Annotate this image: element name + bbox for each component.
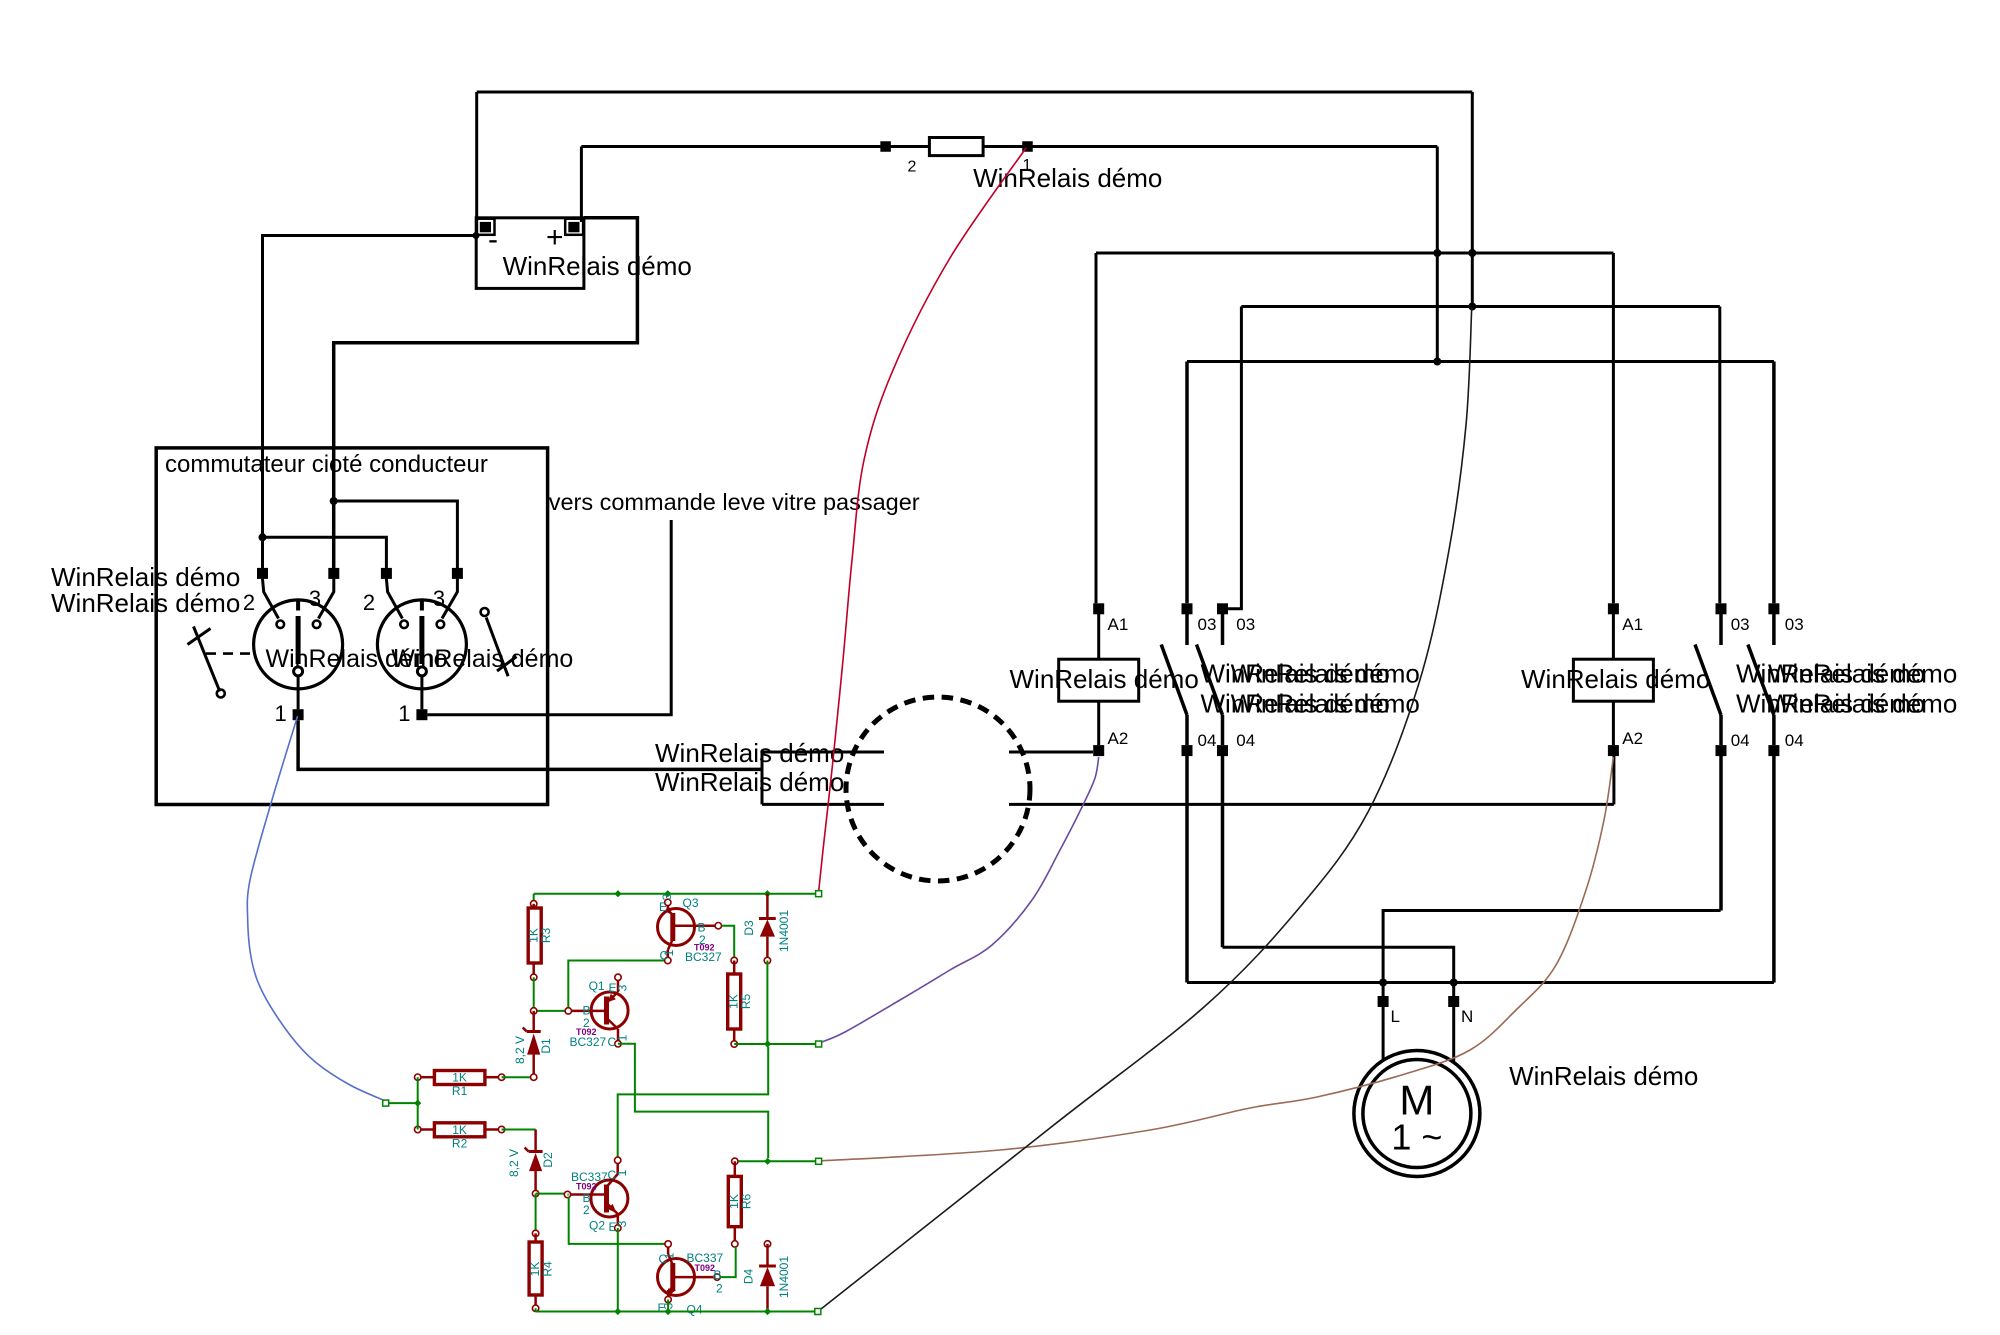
label SW1 pin 2 <box>243 590 255 615</box>
switch SW2 terminal pin3 <box>452 568 463 579</box>
wire SW2 pin1 to passenger command <box>428 520 672 715</box>
label SW2 pin 3 <box>433 586 445 611</box>
label K1 A1 <box>1108 615 1129 634</box>
label K2-1 04 <box>1731 731 1750 750</box>
label Q2 E <box>609 1220 617 1234</box>
connector emitter rail to black link <box>815 1309 821 1315</box>
wire from battery minus to switch box <box>263 232 480 573</box>
label Q1 pin2 <box>583 1016 590 1030</box>
svg-text:03: 03 <box>1236 615 1255 634</box>
wire net B horizontal to NC contacts <box>1241 305 1719 308</box>
wire plus branch to switch2 pin3 <box>334 501 458 573</box>
label Q2 pin1 <box>615 1169 629 1176</box>
svg-text:WinRelais démo: WinRelais démo <box>655 767 844 797</box>
svg-text:1N4001: 1N4001 <box>777 910 791 952</box>
wire green Q2 base down to Q4 collector <box>568 1195 665 1244</box>
connector supply to red link <box>816 891 822 897</box>
label Q3 pin2 <box>699 933 706 947</box>
wire green R1 to D1 <box>502 1076 534 1078</box>
svg-text:R3: R3 <box>539 928 553 944</box>
wire vertical to net A <box>1436 147 1439 362</box>
wire bus N middle <box>1223 947 1454 996</box>
label Q1 pin3 <box>616 984 630 991</box>
contact K2-1 terminal 04 <box>1716 745 1727 756</box>
wire green Q3 collector to Q1 base <box>568 961 664 1009</box>
wire motor lower line left segment <box>762 803 884 806</box>
wire link purple node1 to K1 A2 <box>819 757 1099 1043</box>
fuse F1 <box>880 138 1032 156</box>
wire net B drop to contact 03 right-pair-left <box>1718 307 1721 604</box>
label switches WinRelais demo line2 <box>51 588 240 618</box>
wire motor lower line right segment <box>1009 803 1614 806</box>
svg-text:D2: D2 <box>541 1152 555 1168</box>
label Q2 T092 <box>576 1182 597 1192</box>
svg-text:04: 04 <box>1785 731 1804 750</box>
wire green Q1 collector cross <box>618 1044 768 1158</box>
label R3 value 1K <box>527 928 541 943</box>
label K1-2 04 <box>1236 731 1255 750</box>
contact K1-2 terminal 03 <box>1217 603 1228 614</box>
label Q4 pin1 <box>663 1252 677 1259</box>
label Q3 pin1 <box>662 949 676 956</box>
switch SW2 terminal pin2 <box>381 568 392 579</box>
svg-text:Q3: Q3 <box>683 896 699 910</box>
wire net A horizontal to relay coils A1 <box>1096 252 1613 255</box>
resistor R2 <box>415 1123 505 1137</box>
label K1 A2 <box>1108 729 1129 748</box>
svg-text:A1: A1 <box>1108 615 1129 634</box>
svg-text:2: 2 <box>716 1282 723 1296</box>
label Q1 ref <box>589 979 605 993</box>
label Q1 E <box>609 981 617 995</box>
label D4 ref <box>742 1269 756 1285</box>
svg-text:WinRelais démo: WinRelais démo <box>1231 689 1420 719</box>
label D1 ref <box>539 1038 553 1054</box>
label motor WinRelais demo <box>1509 1061 1698 1091</box>
relay coil K2 terminal A2 <box>1608 745 1619 756</box>
svg-text:D4: D4 <box>742 1269 756 1285</box>
wire motor upper line left segment <box>762 751 884 754</box>
node net A junction lower <box>1433 358 1441 366</box>
svg-text:WinRelais démo: WinRelais démo <box>973 163 1162 193</box>
wire green R3 to Q1 base node <box>534 977 565 1011</box>
label SW2 pin 2 <box>363 590 375 615</box>
label Q1 T092 <box>576 1027 597 1037</box>
label R2 value 1K <box>452 1123 467 1137</box>
label fuse pin 2 <box>908 159 917 176</box>
label motor M <box>1399 1077 1434 1124</box>
motor M1 <box>1354 1051 1480 1177</box>
wire fuse line from battery-plus <box>581 145 1437 148</box>
wire link black emitter rail to net B <box>819 308 1472 1311</box>
svg-text:L: L <box>1391 1007 1400 1026</box>
wire green node1 R5 to connector <box>734 1043 818 1045</box>
svg-text:1 ~: 1 ~ <box>1391 1117 1442 1158</box>
label Q3 B <box>698 921 706 935</box>
relay coil K1 terminal A2 <box>1093 745 1104 756</box>
node H-bridge output 2 <box>764 1158 771 1165</box>
switch SW2 terminal pin1 <box>416 709 427 720</box>
dashed link lever to SW1 <box>206 652 253 655</box>
relay coil K2 terminal A1 <box>1608 603 1619 614</box>
relay coil K1 terminal A1 <box>1093 603 1104 614</box>
label D2 value 8,2 V <box>507 1149 521 1177</box>
svg-text:WinRelais démo: WinRelais démo <box>1521 664 1710 694</box>
node net B junction <box>1468 303 1476 311</box>
resistor R5 <box>728 957 741 1047</box>
svg-text:WinRelais démo: WinRelais démo <box>391 645 573 673</box>
label D2 ref <box>541 1152 555 1168</box>
svg-text:2: 2 <box>243 590 255 615</box>
label K2 A2 <box>1622 729 1643 748</box>
label Q4 pin3 <box>662 1302 676 1309</box>
label K2 contacts WinRelais demo row1 <box>1736 659 1957 689</box>
svg-text:Q4: Q4 <box>687 1303 703 1317</box>
svg-text:1: 1 <box>274 701 286 726</box>
wire green top rail <box>534 893 819 895</box>
label Q4 T092 <box>695 1263 716 1273</box>
svg-text:Q2: Q2 <box>589 1219 605 1233</box>
diode D3 1N4001 <box>759 894 776 964</box>
wire green Q4 base to R6 <box>721 1247 736 1277</box>
label N <box>1461 1007 1473 1026</box>
lever actuator SW1 <box>188 627 225 698</box>
wire contact K2-1 down <box>1719 756 1723 911</box>
wire battery plus drop <box>580 147 583 223</box>
label K1-1 04 <box>1198 731 1217 750</box>
label K1-1 03 <box>1198 615 1217 634</box>
svg-text:8,2 V: 8,2 V <box>513 1036 527 1064</box>
label Q4 ref <box>687 1303 703 1317</box>
wire green D2 to Q2 base and R4 <box>536 1194 565 1234</box>
label R6 value 1K <box>727 1194 741 1209</box>
svg-text:E: E <box>659 900 667 914</box>
wire green Q3 base to R5 <box>722 926 735 957</box>
contact K1-2 terminal 04 <box>1217 745 1228 756</box>
label K2-2 03 <box>1785 615 1804 634</box>
label fuse pin 1 <box>1023 157 1032 174</box>
label motor 1~ <box>1391 1117 1442 1158</box>
svg-text:commutateur cioté conducteur: commutateur cioté conducteur <box>165 451 488 478</box>
node N junction <box>1450 979 1458 987</box>
svg-text:2: 2 <box>583 1203 590 1217</box>
svg-text:WinRelais démo: WinRelais démo <box>1231 659 1420 689</box>
svg-text:1K: 1K <box>452 1123 467 1137</box>
svg-text:2: 2 <box>363 590 375 615</box>
label battery plus <box>546 221 564 254</box>
svg-text:A2: A2 <box>1108 729 1129 748</box>
svg-text:WinRelais démo: WinRelais démo <box>1509 1061 1698 1091</box>
label Q4 B <box>714 1268 722 1282</box>
zener D2 8.2V <box>525 1130 543 1197</box>
label Q4 E <box>658 1301 666 1315</box>
label Q3 pin3 <box>660 893 674 900</box>
contact K2-2 terminal 03 <box>1768 603 1779 614</box>
svg-text:2: 2 <box>908 159 917 176</box>
label motor link WinRelais demo line2 <box>655 767 844 797</box>
svg-text:A1: A1 <box>1622 615 1643 634</box>
label D1 value 8,2 V <box>513 1036 527 1064</box>
wire green Q4 emitter down <box>667 1300 669 1312</box>
wire green node2 R6 to connector <box>735 1160 818 1162</box>
switch SW1 terminal pin2 <box>257 568 268 579</box>
svg-text:vers commande leve vitre passa: vers commande leve vitre passager <box>549 489 920 515</box>
svg-text:04: 04 <box>1731 731 1750 750</box>
label R3 ref <box>539 928 553 944</box>
motor terminal L <box>1378 996 1389 1007</box>
svg-text:1: 1 <box>663 1252 677 1259</box>
label Q2 B <box>583 1191 591 1205</box>
svg-text:03: 03 <box>1785 615 1804 634</box>
wire contact K1-2 down <box>1221 756 1225 947</box>
switch SW1 terminal pin1 <box>293 709 304 720</box>
label K1 contacts WinRelais demo row2 <box>1201 689 1420 719</box>
svg-text:-: - <box>488 223 498 256</box>
svg-text:04: 04 <box>1236 731 1255 750</box>
label Q4 pin2 <box>716 1282 723 1296</box>
connector node1 to purple link <box>816 1041 822 1047</box>
wire battery minus drop <box>475 92 478 236</box>
label Q4 BC337 <box>687 1251 724 1265</box>
wire SW1 pin1 to node <box>298 720 762 769</box>
svg-text:WinRelais démo: WinRelais démo <box>655 738 844 768</box>
label R5 value 1K <box>727 994 741 1009</box>
svg-text:T092: T092 <box>695 1263 716 1273</box>
label Q3 E <box>659 900 667 914</box>
transistor Q4 BC337 <box>658 1241 721 1303</box>
svg-text:N: N <box>1461 1007 1473 1026</box>
wire motor upper line right segment to relay A2 <box>1009 751 1093 754</box>
label battery WinRelais demo <box>503 251 692 281</box>
resistor R3 <box>528 894 541 981</box>
svg-text:1: 1 <box>616 1034 630 1041</box>
wire green input node <box>386 1077 418 1129</box>
contact K1-1 terminal 04 <box>1182 745 1193 756</box>
svg-text:R2: R2 <box>452 1136 468 1150</box>
node H-bridge output 1 <box>764 1040 771 1047</box>
label D4 value <box>777 1256 791 1298</box>
wire link red fuse to H-bridge supply <box>819 148 1026 892</box>
svg-text:T092: T092 <box>576 1182 597 1192</box>
label K1 contacts WinRelais demo row1 <box>1201 659 1420 689</box>
label Q1 BC327 <box>570 1035 607 1049</box>
label R1 value 1K <box>452 1071 467 1085</box>
switch SW1 terminal pin3 <box>328 568 339 579</box>
node L junction <box>1379 979 1387 987</box>
label SW2 WinRelais demo <box>391 645 573 673</box>
node plus branch junction <box>330 497 338 505</box>
wire top battery-minus feed <box>477 91 1473 94</box>
wire L to motor <box>1382 1007 1385 1061</box>
svg-text:1: 1 <box>615 1169 629 1176</box>
label switches WinRelais demo line1 <box>51 562 240 592</box>
wire net A2 horizontal to outer contacts <box>1187 360 1774 363</box>
contact K1-2 <box>1197 614 1223 745</box>
label SW2 pin 1 <box>398 701 410 726</box>
label K2 A1 <box>1622 615 1643 634</box>
label motor link WinRelais demo line1 <box>655 738 844 768</box>
label Q3 BC327 <box>685 950 722 964</box>
label K2 WinRelais demo <box>1521 664 1710 694</box>
wire net B drop to contact 03 left-pair-right <box>1228 307 1241 609</box>
label Q2 C <box>608 1168 617 1182</box>
wire contact K2-2 down <box>1772 756 1776 983</box>
relay coil K1 <box>1059 614 1139 745</box>
resistor R1 <box>415 1071 505 1085</box>
wire bus lower common <box>1187 981 1774 984</box>
motor terminal N <box>1448 996 1459 1007</box>
svg-text:BC327: BC327 <box>570 1035 607 1049</box>
lever actuator SW2 <box>481 608 517 676</box>
wire node vertical at motor connector <box>761 751 764 805</box>
wire link brown node2 to K2 A2 <box>819 757 1614 1161</box>
svg-text:R6: R6 <box>740 1194 754 1210</box>
node minus branch junction <box>259 533 267 541</box>
label vers commande leve vitre passager <box>549 489 920 515</box>
wire green D3 to node1 <box>766 961 768 1045</box>
label R1 ref <box>452 1084 468 1098</box>
node input junction <box>414 1100 421 1107</box>
label K2-2 04 <box>1785 731 1804 750</box>
node net B crossing dot on A line <box>1468 249 1476 257</box>
label Q2 ref <box>589 1219 605 1233</box>
svg-text:1K: 1K <box>452 1071 467 1085</box>
switch SW1 body <box>254 579 343 709</box>
label Q2 BC337 <box>571 1170 608 1184</box>
svg-text:R4: R4 <box>541 1261 555 1277</box>
connector blob dashed circle <box>846 697 1030 881</box>
commutateur box <box>156 448 547 805</box>
transistor Q3 BC327 <box>658 899 722 964</box>
node rail junction D4 <box>764 1308 771 1315</box>
label Q2 pin2 <box>583 1203 590 1217</box>
battery BT1 <box>476 218 584 289</box>
contact K1-1 <box>1161 614 1187 745</box>
svg-text:03: 03 <box>1731 615 1750 634</box>
transistor Q1 BC327 <box>565 974 628 1047</box>
resistor R4 <box>529 1230 542 1311</box>
wire right vertical to net B <box>1471 92 1474 307</box>
contact K2-2 <box>1748 614 1774 745</box>
svg-text:+: + <box>546 221 564 254</box>
label R2 ref <box>452 1136 468 1150</box>
svg-text:R5: R5 <box>739 994 753 1010</box>
svg-text:BC327: BC327 <box>685 950 722 964</box>
svg-text:WinRelais démo: WinRelais démo <box>1768 659 1957 689</box>
diode D4 1N4001 <box>759 1241 776 1312</box>
wire from battery plus around right side <box>334 218 638 573</box>
svg-text:3: 3 <box>433 586 445 611</box>
label Q1 pin1 <box>616 1034 630 1041</box>
label Q3 T092 <box>694 943 715 953</box>
label SW1 pin 3 <box>309 586 321 611</box>
connector node2 to brown link <box>816 1158 822 1164</box>
wire N to motor <box>1452 1007 1455 1063</box>
svg-text:WinRelais démo: WinRelais démo <box>1768 689 1957 719</box>
wire bus L upper <box>1383 911 1721 997</box>
wire drop to contact 03 right-pair-right <box>1772 362 1776 604</box>
node rail junction D3 <box>764 890 771 897</box>
svg-text:B: B <box>714 1268 722 1282</box>
label K1 WinRelais demo <box>1010 664 1199 694</box>
contact K1-1 terminal 03 <box>1182 603 1193 614</box>
wire A1 right relay drop <box>1612 253 1615 603</box>
svg-text:R1: R1 <box>452 1084 468 1098</box>
label Q3 C <box>660 949 669 963</box>
resistor R6 <box>728 1158 741 1247</box>
node rail junction Q2e <box>614 1308 621 1315</box>
node rail junction Q1 <box>614 890 621 897</box>
svg-text:WinRelais démo: WinRelais démo <box>503 251 692 281</box>
label D3 value <box>777 910 791 952</box>
svg-text:3: 3 <box>309 586 321 611</box>
label Q1 B <box>583 1004 591 1018</box>
label battery minus <box>488 223 498 256</box>
wire green bottom emitter rail <box>536 1308 818 1311</box>
label Q4 C <box>659 1252 668 1266</box>
svg-text:Q1: Q1 <box>589 979 605 993</box>
label commutateur ciote conducteur <box>165 451 488 478</box>
label fuse WinRelais demo <box>973 163 1162 193</box>
wire green R2 to D2 <box>502 1129 536 1131</box>
label R6 ref <box>740 1194 754 1210</box>
svg-text:04: 04 <box>1198 731 1217 750</box>
label R4 value 1K <box>528 1262 542 1277</box>
wire minus branch to switch2 pin2 <box>263 537 387 573</box>
label Q3 ref <box>683 896 699 910</box>
node rail junction Q3 <box>664 890 671 897</box>
wire A1 left relay drop <box>1095 253 1098 603</box>
svg-text:D1: D1 <box>539 1038 553 1054</box>
transistor Q2 BC337 <box>564 1157 628 1231</box>
zener D1 8.2V <box>523 1008 541 1081</box>
label K2 contacts WinRelais demo row2 <box>1736 689 1957 719</box>
label Q2 pin3 <box>615 1220 629 1227</box>
wire green Q2 emitter down <box>617 1228 619 1312</box>
svg-text:3: 3 <box>660 893 674 900</box>
label L <box>1391 1007 1400 1026</box>
svg-text:03: 03 <box>1198 615 1217 634</box>
switch SW2 body <box>377 579 466 709</box>
svg-text:1N4001: 1N4001 <box>777 1256 791 1298</box>
connector input to blue link <box>383 1100 389 1106</box>
wire link blue SW1 pin1 to input node <box>247 716 385 1101</box>
svg-text:D3: D3 <box>742 920 756 936</box>
contact K2-1 <box>1695 614 1721 745</box>
svg-text:A2: A2 <box>1622 729 1643 748</box>
label D3 ref <box>742 920 756 936</box>
svg-text:1: 1 <box>398 701 410 726</box>
wire contact K1-1 down <box>1185 756 1189 983</box>
label R5 ref <box>739 994 753 1010</box>
label Q1 C <box>608 1035 617 1049</box>
wire up to right relay A2 <box>1612 756 1615 804</box>
label K2-1 03 <box>1731 615 1750 634</box>
svg-text:3: 3 <box>615 1220 629 1227</box>
label R4 ref <box>541 1261 555 1277</box>
contact K2-1 terminal 03 <box>1716 603 1727 614</box>
node net A junction upper <box>1433 249 1441 257</box>
wire drop to contact 03 left-pair-left <box>1185 362 1189 604</box>
label K1-2 03 <box>1236 615 1255 634</box>
label SW1 pin 1 <box>274 701 286 726</box>
contact K2-2 terminal 04 <box>1768 745 1779 756</box>
svg-text:8,2 V: 8,2 V <box>507 1149 521 1177</box>
svg-text:1: 1 <box>662 949 676 956</box>
label SW1 WinRelais demo <box>266 645 448 673</box>
relay coil K2 <box>1573 614 1653 745</box>
svg-text:WinRelais démo: WinRelais démo <box>51 588 240 618</box>
